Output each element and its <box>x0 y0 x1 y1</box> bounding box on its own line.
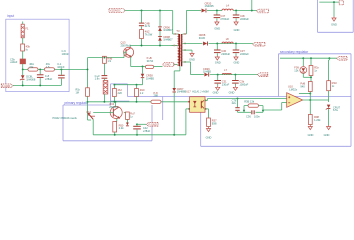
svg-text:230uF: 230uF <box>222 82 230 86</box>
svg-text:1.8x: 1.8x <box>95 77 101 81</box>
svg-text:1N4008: 1N4008 <box>26 77 36 81</box>
svg-text:2700uF: 2700uF <box>220 17 229 21</box>
svg-text:u78uF: u78uF <box>143 129 151 133</box>
svg-text:100nF: 100nF <box>57 65 65 69</box>
svg-text:primary regulator: primary regulator <box>65 101 90 105</box>
svg-text:22u: 22u <box>232 101 237 105</box>
svg-text:+C4D3: +C4D3 <box>260 73 269 77</box>
svg-text:39 54: 39 54 <box>147 59 154 63</box>
svg-text:22k: 22k <box>29 65 34 69</box>
svg-text:GND: GND <box>215 61 221 65</box>
svg-text:GND: GND <box>229 90 235 94</box>
svg-text:GND: GND <box>234 28 240 32</box>
svg-text:250 RbU: 250 RbU <box>121 43 131 47</box>
svg-text:u78uF: u78uF <box>45 77 53 81</box>
svg-text:1.20k: 1.20k <box>314 118 321 122</box>
svg-text:1N4B5: 1N4B5 <box>146 76 154 80</box>
svg-text:+12Vs: +12Vs <box>339 56 347 60</box>
svg-text:P0102 / BM103 rework: P0102 / BM103 rework <box>53 117 78 120</box>
svg-text:GND: GND <box>189 58 195 62</box>
svg-text:GND: GND <box>324 133 330 137</box>
svg-text:F-GND: F-GND <box>2 84 10 88</box>
svg-text:12k: 12k <box>294 68 299 72</box>
svg-text:U10: U10 <box>288 85 293 89</box>
svg-text:GND: GND <box>213 90 219 94</box>
svg-text:H11A1 J +M3M: H11A1 J +M3M <box>192 91 208 94</box>
svg-text:+320VDC: +320VDC <box>110 9 121 13</box>
svg-text:F-GND: F-GND <box>149 122 157 126</box>
svg-text:1N488B: 1N488B <box>177 90 187 94</box>
svg-text:GND: GND <box>234 61 240 65</box>
svg-text:GND: GND <box>331 23 337 27</box>
svg-text:1.5: 1.5 <box>46 65 50 69</box>
svg-text:1.2: 1.2 <box>140 91 144 95</box>
svg-text:100nF: 100nF <box>62 52 70 56</box>
svg-text:250RbA: 250RbA <box>109 105 119 109</box>
svg-text:7k 5W: 7k 5W <box>145 32 153 36</box>
svg-text:288: 288 <box>154 94 159 98</box>
svg-text:U17: U17 <box>186 91 191 94</box>
svg-text:100n: 100n <box>254 115 260 119</box>
svg-text:1.9: 1.9 <box>107 59 111 63</box>
svg-text:R3B 13k: R3B 13k <box>244 100 255 104</box>
svg-text:GND: GND <box>165 63 171 67</box>
svg-text:1M: 1M <box>76 91 79 94</box>
svg-text:3U36: 3U36 <box>199 36 206 40</box>
svg-text:u10uF: u10uF <box>10 60 18 64</box>
svg-text:2200uF: 2200uF <box>240 17 249 21</box>
svg-text:1000uF: 1000uF <box>239 82 248 86</box>
svg-text:C36: C36 <box>246 115 251 119</box>
svg-text:secondary regulator: secondary regulator <box>280 50 309 54</box>
svg-text:GND: GND <box>214 27 220 31</box>
svg-text:220: 220 <box>118 91 123 95</box>
svg-text:6.5v: 6.5v <box>333 108 339 112</box>
svg-text:2200uF: 2200uF <box>240 52 249 56</box>
svg-text:+12V: +12V <box>259 9 265 13</box>
svg-text:1N4B5: 1N4B5 <box>203 70 211 74</box>
svg-text:2.2k: 2.2k <box>119 126 125 130</box>
svg-text:+C4B: +C4B <box>255 42 262 46</box>
svg-text:GND: GND <box>206 136 212 140</box>
svg-text:input: input <box>7 14 14 18</box>
svg-text:940: 940 <box>300 84 305 88</box>
svg-text:4L7x: 4L7x <box>145 24 151 28</box>
svg-text:GND: GND <box>308 133 314 137</box>
svg-text:2200uF: 2200uF <box>221 52 230 56</box>
svg-text:1N4B07: 1N4B07 <box>163 28 173 32</box>
svg-text:E98: E98 <box>212 121 217 125</box>
svg-text:T3: T3 <box>176 29 180 33</box>
svg-text:1N4005: 1N4005 <box>205 4 215 8</box>
svg-text:1N4B07: 1N4B07 <box>163 38 173 42</box>
